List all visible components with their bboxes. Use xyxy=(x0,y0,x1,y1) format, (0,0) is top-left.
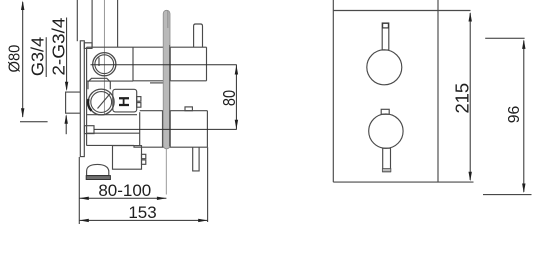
port circle lower (outer) xyxy=(88,89,114,115)
port circle upper (inner) xyxy=(95,55,114,74)
valve body left edge xyxy=(86,47,88,145)
dimension 96 xyxy=(483,38,532,194)
plate bottom edge + 215 extension xyxy=(333,181,473,183)
svg-text:H: H xyxy=(116,96,133,107)
extension line 80-100 left xyxy=(78,157,80,224)
port upper slot xyxy=(98,58,100,67)
dimension 153 xyxy=(79,219,207,221)
body / handle mid bottom edge xyxy=(133,80,207,82)
dimension Ø80 xyxy=(20,2,48,122)
wire pipe centerline (light) xyxy=(103,0,105,114)
outlet stub on top xyxy=(194,24,203,47)
lower knob tab xyxy=(381,109,389,114)
mounting flange plate (back) xyxy=(80,41,84,157)
extension line 153 right xyxy=(207,147,209,222)
upper knob circle xyxy=(367,50,402,85)
hanging U-tab xyxy=(193,147,199,171)
handle lower block right edge xyxy=(206,111,208,148)
body joint line xyxy=(87,132,140,134)
rear inlet stub xyxy=(66,92,81,113)
dimension 80 (left view) xyxy=(91,65,237,130)
body step line near plate xyxy=(150,82,163,84)
svg-text:G3/4: G3/4 xyxy=(28,37,48,76)
dimension 215 xyxy=(469,13,471,180)
bottom connection box xyxy=(113,146,142,170)
hex nut between ports xyxy=(88,78,110,89)
svg-text:80-100: 80-100 xyxy=(98,181,151,200)
port lower slot xyxy=(98,94,111,109)
handle lower block top edge xyxy=(170,110,207,112)
handle upper block right edge xyxy=(206,47,208,81)
lower knob circle xyxy=(369,114,403,148)
plate right edge xyxy=(437,0,439,182)
wire pipe line 3 xyxy=(117,0,119,47)
svg-text:Ø80: Ø80 xyxy=(6,45,24,73)
valve body top edge xyxy=(87,46,207,48)
label G3/4 underline xyxy=(45,37,47,77)
valve body bottom edge xyxy=(87,144,134,146)
body sub-block left edge xyxy=(132,47,134,81)
upper knob stem xyxy=(382,23,389,50)
H-box stub bump 2 xyxy=(137,103,141,108)
front view plate xyxy=(333,0,473,182)
lower knob stem foot xyxy=(382,169,390,172)
bottom box stub bump 1 xyxy=(142,154,146,158)
outlet elbow dome xyxy=(87,164,109,175)
outlet elbow plinth xyxy=(86,176,110,180)
bottom box stub bump 2 xyxy=(142,160,146,164)
upper knob stem cap xyxy=(383,23,389,28)
flange top tab xyxy=(84,43,92,49)
handle upper block left edge xyxy=(169,47,171,81)
svg-text:215: 215 xyxy=(452,83,473,114)
body joint below cartridge xyxy=(87,114,137,116)
plate top edge + 215 extension xyxy=(333,10,470,12)
label 2-G3/4 underline leader xyxy=(66,18,68,90)
wire pipe line 1 (inlet pipe left edge) xyxy=(76,0,78,41)
trim plate extension line (thin) xyxy=(165,149,167,195)
H-box stub bump 1 xyxy=(137,97,141,102)
port circle lower (inner) xyxy=(91,92,112,113)
leader arrow up xyxy=(65,116,67,135)
plate left edge xyxy=(332,0,334,182)
cartridge H-box xyxy=(113,89,137,112)
svg-text:80: 80 xyxy=(220,90,240,106)
leader arrow down xyxy=(65,82,68,92)
body joint line upper xyxy=(87,80,133,82)
trim plate edge-on (gray band) xyxy=(163,10,170,149)
body right lower edge xyxy=(139,112,141,145)
dimension 80-100 xyxy=(79,197,166,199)
body rear top edge to plate xyxy=(140,110,164,112)
lower knob stem xyxy=(383,148,391,172)
port circle upper (outer) xyxy=(93,53,116,76)
svg-text:2-G3/4: 2-G3/4 xyxy=(48,18,68,76)
handle lower block notch xyxy=(185,107,192,111)
wire pipe line 2 xyxy=(91,0,93,47)
flange bottom lug xyxy=(85,126,95,134)
body bottom step xyxy=(134,145,207,147)
svg-text:96: 96 xyxy=(506,106,523,124)
port lower heavy arc xyxy=(88,99,91,111)
svg-text:153: 153 xyxy=(128,203,156,222)
body right edge near plate xyxy=(162,111,164,148)
trim plate right edge accent xyxy=(169,45,171,146)
handle lower block left edge xyxy=(169,111,171,148)
